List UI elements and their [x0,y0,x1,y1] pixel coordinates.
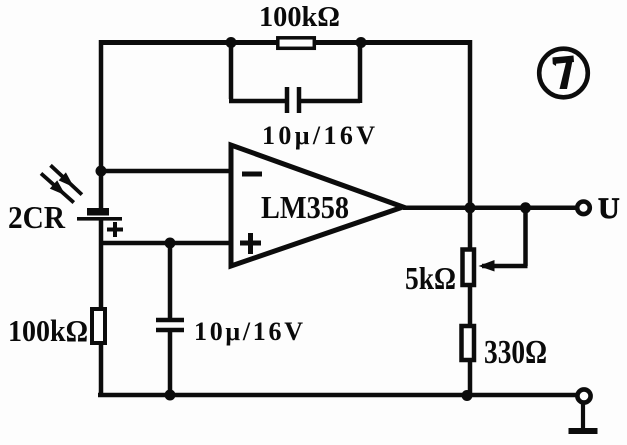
wire output [403,206,576,211]
wire top rail [99,40,472,45]
node feedback right junction [356,37,367,48]
svg-text:10μ/16V: 10μ/16V [194,317,303,346]
potentiometer RP 5k [463,250,475,286]
node bottom right junction [462,390,473,401]
wire left rail mid [99,219,104,308]
figure number 7 [539,49,588,98]
wire feedback cap left [229,42,286,101]
wiper arrow [479,260,495,272]
resistor R4 330 [462,326,475,360]
svg-text:100kΩ: 100kΩ [8,313,88,348]
svg-text:10μ/16V: 10μ/16V [262,121,375,150]
wire C2 branch lower [168,332,173,395]
wire right rail upper [468,40,473,249]
node output junction [465,202,476,213]
node inverting input junction [96,166,107,177]
wire right rail lower [468,360,473,397]
wire wiper branch [482,208,528,266]
wire inverting input [99,169,229,174]
node feedback left junction [226,37,237,48]
svg-text:5kΩ: 5kΩ [405,260,456,296]
svg-text:100kΩ: 100kΩ [259,2,340,33]
capacitor C2 [156,320,184,330]
node non-inverting junction [165,238,176,249]
light arrow upper [51,165,82,194]
capacitor C1 feedback [287,87,299,113]
resistor R2 100k lower left [92,309,105,343]
ground [569,389,598,434]
svg-text:U: U [598,192,620,225]
wire left rail upper [99,40,104,208]
op-amp U1 LM358 [231,145,403,266]
wire C2 branch upper [168,243,173,318]
node wiper junction [520,202,531,213]
wire bottom rail [98,393,576,398]
terminal U output [577,202,590,215]
resistor R1 100k feedback [278,38,315,49]
svg-text:LM358: LM358 [261,189,349,225]
wire non-inverting input [99,241,229,246]
photocell 2CR [77,208,123,237]
wire right rail mid [468,286,473,328]
svg-text:2CR: 2CR [8,199,66,235]
wire feedback cap right [301,42,360,103]
wire left rail lower [99,344,104,397]
pin minus [242,172,262,177]
light arrow lower [41,173,74,202]
pin plus [240,233,261,254]
node C2 bottom junction [165,390,176,401]
svg-text:330Ω: 330Ω [484,334,547,371]
